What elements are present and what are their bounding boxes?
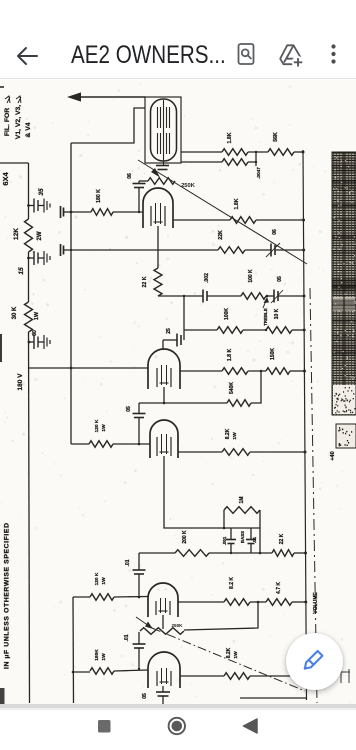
right bus vertical xyxy=(303,150,307,700)
page bottom cut edge xyxy=(0,704,356,708)
svg-text:TREBLE: TREBLE xyxy=(263,308,268,326)
svg-text:05: 05 xyxy=(277,276,283,282)
B+ wire to tube V2 xyxy=(29,367,149,369)
svg-text:1.8K: 1.8K xyxy=(234,198,240,209)
app bar xyxy=(0,28,356,79)
back arrow xyxy=(18,48,37,64)
nav: back triangle xyxy=(244,719,258,733)
svg-text:120 K: 120 K xyxy=(94,572,100,585)
resistor 30K 1W xyxy=(25,302,33,332)
svg-text:12K: 12K xyxy=(13,228,20,240)
svg-text:250K: 250K xyxy=(172,623,184,628)
svg-text:& V4: & V4 xyxy=(25,122,32,137)
tube V1 xyxy=(143,188,173,228)
svg-text:180 V: 180 V xyxy=(17,373,24,391)
row y296: .002 / 100K / .05 treble top xyxy=(158,295,203,297)
scan edge marks xyxy=(0,334,2,362)
svg-text:1W: 1W xyxy=(34,311,40,320)
pot P2 250K xyxy=(140,628,184,635)
svg-text:30 K: 30 K xyxy=(12,306,18,319)
svg-text:BASS: BASS xyxy=(240,531,245,543)
svg-text:1W: 1W xyxy=(232,432,238,440)
svg-text:22K: 22K xyxy=(218,230,224,240)
svg-text:1W: 1W xyxy=(233,651,239,659)
svg-text:05: 05 xyxy=(126,406,132,412)
row y602: 8.2K / 4.7K to bus xyxy=(178,601,224,603)
svg-text:8.2K: 8.2K xyxy=(225,428,231,439)
svg-text:100 K: 100 K xyxy=(248,269,254,283)
resistor 120K 1W grid3 xyxy=(73,596,90,598)
svg-text:540K: 540K xyxy=(229,382,235,394)
svg-text:.001: .001 xyxy=(222,536,227,545)
wire box-left to left bus xyxy=(71,108,145,143)
component table block xyxy=(332,152,356,415)
svg-text:150K: 150K xyxy=(270,348,276,360)
drop to pot2 xyxy=(184,602,258,630)
svg-text:4.7 K: 4.7 K xyxy=(276,582,282,594)
tube V5 bottom + cap 05 xyxy=(162,686,164,692)
tube V3 bottom lead to bass network xyxy=(164,456,224,528)
nav: recents square xyxy=(98,720,111,733)
svg-text:180 K: 180 K xyxy=(96,189,102,203)
wire left feed xyxy=(0,162,29,164)
svg-text:100K: 100K xyxy=(224,308,230,320)
svg-text:06: 06 xyxy=(127,173,133,179)
svg-text:VOLUME: VOLUME xyxy=(313,592,319,614)
svg-text:8.2 K: 8.2 K xyxy=(229,577,235,589)
row y220: R 1.8K to bus xyxy=(173,219,230,221)
resistor 180K 1W grid4 xyxy=(73,671,90,673)
svg-text:06: 06 xyxy=(272,229,278,235)
svg-text:.0047: .0047 xyxy=(256,167,261,179)
svg-text:.01: .01 xyxy=(252,536,257,543)
row y452: 8.2K 1W to bus xyxy=(178,451,222,453)
svg-text:1W: 1W xyxy=(101,653,107,661)
row y152: R 1.8K + R 56K to bus xyxy=(181,151,222,153)
cap .01 coupling t4 xyxy=(138,632,140,644)
treble wiper xyxy=(263,298,267,308)
resistor 120K 1W grid2 xyxy=(89,441,113,448)
tube V4 bottom lead xyxy=(162,615,164,629)
svg-text:V1, V2, V3,: V1, V2, V3, xyxy=(15,105,22,139)
svg-text:120 K: 120 K xyxy=(94,419,100,432)
svg-text:6X4: 6X4 xyxy=(1,172,10,186)
row y403: 540K up to junction xyxy=(139,402,227,404)
tube V4 xyxy=(148,583,178,617)
find-in-page icon xyxy=(239,44,254,64)
svg-text:15: 15 xyxy=(18,267,25,275)
svg-text:22 K: 22 K xyxy=(142,276,148,287)
row y371: 1.8K / 150K to bus xyxy=(180,370,222,372)
jack J2 row y250: R 22K + cap .06 to bus xyxy=(60,244,62,256)
svg-text:IN µF UNLESS OTHERWISE SPECIFI: IN µF UNLESS OTHERWISE SPECIFIED xyxy=(4,523,11,669)
tube V2 bottom lead xyxy=(163,387,165,403)
bus x73 bottom xyxy=(72,597,75,703)
svg-text:1W: 1W xyxy=(101,577,107,585)
row y162: R + .0047 xyxy=(181,161,222,163)
svg-text:8.2K: 8.2K xyxy=(226,647,232,658)
svg-text:80: 80 xyxy=(32,330,38,336)
svg-text:25: 25 xyxy=(166,328,172,334)
bus x71 vertical xyxy=(70,143,72,444)
cap 25 xyxy=(183,330,185,340)
tube V5 xyxy=(148,652,180,688)
left bus vertical xyxy=(28,163,30,219)
wire bottom edge xyxy=(240,697,306,699)
svg-text:.01: .01 xyxy=(124,634,130,641)
resistor 1M bracket xyxy=(223,510,225,528)
row y553: 200K / 22K to bus xyxy=(139,552,175,554)
add-to-drive icon xyxy=(280,45,301,64)
V1 cathode lead xyxy=(157,226,159,268)
resistor 180K xyxy=(71,211,91,213)
rectifier tube V5 6X4 capsule xyxy=(151,99,177,161)
svg-text:200 K: 200 K xyxy=(182,530,188,544)
svg-text:35: 35 xyxy=(38,188,45,196)
svg-text:10 K: 10 K xyxy=(274,308,280,319)
row y330: 100K / 10K treble bottom xyxy=(183,296,185,330)
svg-text:1W: 1W xyxy=(101,424,107,432)
cap .001 xyxy=(230,528,232,539)
svg-text:+40: +40 xyxy=(330,451,336,460)
pot P1 250K volume xyxy=(148,178,175,185)
svg-text:1M: 1M xyxy=(239,497,245,504)
cap .35 + ground xyxy=(27,204,30,207)
FAB edit button xyxy=(286,633,343,690)
tiny arrows above fil text xyxy=(5,96,10,103)
capacitor below rectifier xyxy=(156,165,169,167)
cap 80 + ground xyxy=(28,341,31,344)
small id box xyxy=(336,424,356,448)
tube V2 xyxy=(148,349,180,389)
resistor 22K cathode xyxy=(154,268,162,296)
rectifier box outline xyxy=(145,97,181,163)
svg-text:22 K: 22 K xyxy=(279,533,285,544)
cap .06 xyxy=(138,188,140,213)
cap .05 coupling xyxy=(138,403,140,413)
svg-text:1.8K: 1.8K xyxy=(227,132,233,143)
svg-text:2W: 2W xyxy=(37,231,43,240)
svg-text:.01: .01 xyxy=(125,559,131,566)
tube V3 xyxy=(150,420,178,458)
svg-text:56K: 56K xyxy=(273,132,279,142)
dashed boundary line xyxy=(310,288,317,703)
wiper arrow diag D1 xyxy=(138,160,307,264)
svg-text:05: 05 xyxy=(142,693,148,699)
arrowhead left xyxy=(67,92,81,101)
svg-text:1.8 K: 1.8 K xyxy=(227,349,233,362)
pencil icon xyxy=(302,651,322,671)
svg-text:180K: 180K xyxy=(94,649,100,661)
cap 15 + ground xyxy=(27,257,30,260)
pot2 wiper arrow + gang dash D2 xyxy=(136,617,152,628)
overflow menu dots xyxy=(331,44,335,63)
row y676: 8.2K 1W to bus xyxy=(180,675,224,677)
svg-text:FIL. FOR: FIL. FOR xyxy=(4,108,11,136)
cap .01 bass xyxy=(250,528,252,539)
wire: B+ arrow line to fil transformer xyxy=(76,96,145,98)
resistor 12K 2W xyxy=(25,219,33,252)
jack J1 xyxy=(64,211,71,213)
rectifier internals xyxy=(163,100,165,165)
cap .01 coupling t3 xyxy=(138,553,140,570)
svg-text:.002: .002 xyxy=(204,273,210,283)
nav: home circle xyxy=(169,718,185,734)
